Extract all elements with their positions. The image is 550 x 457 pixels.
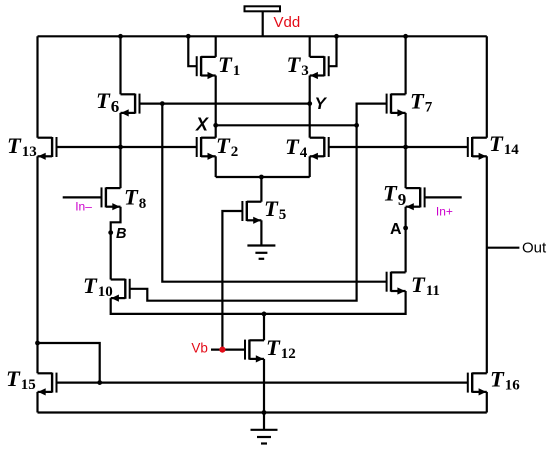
wire (119, 36, 121, 94)
svg-text:T9: T9 (383, 181, 406, 209)
wire (405, 113, 407, 188)
svg-text:Y: Y (315, 94, 328, 113)
wire (222, 211, 242, 350)
wire (486, 392, 488, 413)
wire (119, 113, 121, 188)
wire (57, 146, 197, 148)
transistor T3 (287, 52, 329, 79)
svg-text:Vdd: Vdd (274, 14, 301, 31)
svg-text:T12: T12 (266, 335, 296, 362)
transistor T8 (102, 185, 147, 212)
node Y (307, 94, 327, 113)
wire (329, 146, 468, 148)
svg-text:T11: T11 (411, 272, 440, 299)
wire (38, 35, 487, 37)
wire (111, 291, 406, 314)
wire (487, 247, 520, 249)
label In- (75, 200, 92, 214)
svg-text:T15: T15 (6, 366, 36, 393)
wire (215, 76, 217, 126)
junction (118, 34, 123, 39)
transistor T11 (387, 272, 440, 299)
wire (309, 156, 311, 177)
svg-text:T5: T5 (264, 196, 286, 223)
svg-text:T6: T6 (96, 88, 119, 116)
transistor T12 (245, 335, 296, 363)
wire (486, 156, 488, 373)
wire (188, 36, 196, 66)
svg-text:T8: T8 (124, 185, 146, 212)
svg-text:T7: T7 (410, 88, 433, 115)
transistor T15 (6, 366, 57, 396)
wire (216, 124, 357, 126)
junction (186, 34, 191, 39)
wire (216, 176, 310, 178)
wire (260, 177, 262, 202)
junction (354, 123, 359, 128)
node A (390, 221, 408, 238)
svg-text:T13: T13 (7, 133, 37, 160)
label Out (522, 240, 547, 257)
ground (247, 246, 275, 259)
wire (424, 196, 462, 198)
wire (260, 220, 262, 245)
wire (140, 102, 310, 104)
transistor T2 (197, 133, 239, 160)
svg-text:T4: T4 (285, 134, 308, 161)
junction (259, 175, 264, 180)
svg-text:Out: Out (522, 240, 547, 257)
svg-text:T3: T3 (287, 52, 309, 79)
transistor T4 (285, 134, 329, 161)
node Vb (191, 340, 225, 355)
junction (35, 341, 40, 346)
Vdd supply symbol (245, 6, 281, 36)
transistor T16 (468, 367, 520, 396)
wire (211, 349, 245, 351)
transistor T6 (96, 88, 140, 117)
transistor T9 (383, 181, 425, 211)
junction (403, 145, 408, 150)
svg-text:T14: T14 (489, 131, 519, 158)
wire (263, 314, 265, 340)
wire (486, 36, 488, 137)
transistor T10 (83, 273, 130, 302)
wire (38, 411, 487, 413)
wire (36, 392, 38, 413)
node B (108, 226, 126, 242)
transistor T13 (7, 133, 57, 160)
svg-text:T2: T2 (216, 133, 238, 160)
junction (403, 34, 408, 39)
wire (309, 104, 311, 138)
svg-text:X: X (195, 114, 209, 134)
ground (251, 413, 278, 444)
svg-text:T16: T16 (490, 367, 520, 394)
wire (38, 343, 100, 383)
wire (111, 207, 121, 280)
wire (215, 125, 217, 137)
wire (63, 196, 102, 198)
junction (334, 34, 339, 39)
svg-text:T1: T1 (218, 52, 240, 79)
transistor T1 (197, 52, 241, 79)
wire (263, 359, 265, 413)
wire (57, 382, 468, 384)
node X (195, 114, 218, 134)
wire (405, 36, 407, 94)
transistor T5 (242, 196, 286, 224)
Vdd label (274, 14, 301, 31)
transistor T7 (387, 88, 433, 116)
wire (36, 36, 38, 137)
junction (262, 410, 267, 415)
junction (118, 145, 123, 150)
wire (309, 76, 311, 104)
wire (405, 207, 407, 273)
svg-text:In+: In+ (436, 205, 453, 219)
svg-text:In–: In– (75, 200, 92, 214)
wire (36, 156, 38, 373)
junction (160, 101, 165, 106)
wire (215, 36, 217, 57)
wire (357, 104, 387, 126)
wire (130, 125, 357, 300)
transistor T14 (468, 131, 519, 160)
svg-text:A: A (390, 221, 402, 238)
wire (162, 104, 386, 282)
junction (97, 380, 102, 385)
svg-text:B: B (116, 226, 126, 242)
svg-text:Vb: Vb (191, 340, 208, 355)
wire (309, 36, 311, 57)
svg-text:T10: T10 (83, 273, 113, 300)
wire (215, 156, 217, 177)
wire (329, 36, 337, 66)
label In+ (436, 205, 453, 219)
junction (262, 312, 267, 317)
